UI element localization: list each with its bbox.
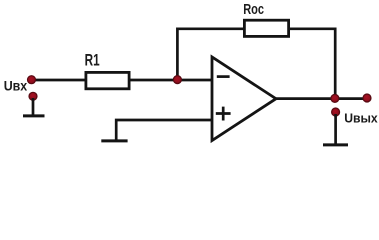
ground (input): [23, 114, 45, 117]
svg-text:Uвых: Uвых: [344, 110, 378, 125]
svg-text:Roc: Roc: [243, 1, 264, 18]
wire Uвых terminal to ground: [334, 114, 337, 144]
wire non-inverting input to ground: [116, 120, 212, 140]
node input terminal (Uвх upper): [28, 76, 36, 84]
resistor R1: [86, 72, 129, 88]
wire op-amp output: [276, 97, 367, 100]
node input lower terminal: [29, 92, 37, 100]
ground (output): [323, 143, 348, 146]
wire feedback up and across to Roc: [177, 29, 244, 80]
wire lower terminal to ground: [32, 98, 35, 115]
wire input node to R1: [32, 79, 87, 82]
pin plus sign (non-inverting input): [216, 107, 231, 121]
op-amp U1: [212, 57, 276, 141]
svg-text:Uвх: Uвх: [4, 77, 28, 93]
node Uвых terminal: [332, 108, 340, 116]
wire Roc to output node: [289, 29, 336, 99]
node junction at inverting input: [173, 76, 181, 84]
pin minus sign (inverting input): [217, 75, 230, 78]
resistor Roc: [244, 20, 288, 36]
node output junction: [331, 94, 339, 102]
ground (non-inverting input): [101, 139, 127, 142]
svg-text:R1: R1: [85, 52, 100, 70]
wire R1 to inverting input: [129, 79, 212, 82]
node output right terminal: [363, 94, 371, 102]
